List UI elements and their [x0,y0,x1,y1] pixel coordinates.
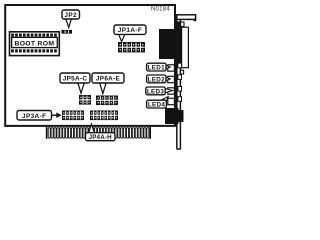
svg-text:N0184: N0184 [151,6,171,12]
JP1A-F callout label [114,25,146,42]
JP2 jumper block [62,30,73,34]
board right edge thick section [174,22,177,127]
bracket (metal L-bracket) [177,15,196,149]
JP4A-H jumper block [90,111,118,121]
svg-text:BOOT ROM: BOOT ROM [15,40,55,47]
svg-text:LED4: LED4 [148,102,165,109]
LED3 body [168,88,175,94]
edge connector JP4 card-edge fingers [47,127,151,139]
screw hole (bottom) [181,70,184,74]
JP1A-F jumper block [118,42,145,52]
board outline PCB [5,5,175,126]
LED1 callout label [147,63,171,71]
svg-text:JP6A-E: JP6A-E [96,76,121,83]
LED4 callout label [147,97,169,109]
svg-text:JP4A-H: JP4A-H [89,134,113,141]
BNC connector (black block, bottom right) [165,108,184,124]
svg-text:JP3A-F: JP3A-F [22,113,46,120]
svg-text:LED1: LED1 [148,65,165,72]
LED1 body [168,65,175,71]
LED3 bracket bump [178,87,182,92]
boot ROM U1 [10,32,60,56]
JP5A-C jumper block [79,95,91,105]
LED4 body [168,98,175,104]
LED2 body [168,76,175,82]
bracket dark section above connector [175,22,180,64]
JP6A-E jumper block [96,96,118,106]
LED4 bracket bump [178,97,182,102]
JP5A-C callout label [60,73,90,93]
svg-text:JP2: JP2 [64,12,77,19]
JP6A-E callout label [92,73,124,94]
JP2 callout label [62,10,80,27]
JP4A-H callout label [86,124,116,141]
LED2 bracket bump [178,75,182,80]
LED1 bracket bump [178,63,182,68]
svg-text:LED3: LED3 [147,88,164,95]
screw hole (top) [181,22,184,26]
svg-text:LED2: LED2 [148,76,165,83]
transceiver module (black block, top right) [159,29,176,59]
DB connector (side view on bracket) [182,27,189,67]
JP3A-F jumper block [62,111,84,121]
LED3 callout label [146,87,173,95]
svg-text:JP1A-F: JP1A-F [118,27,142,34]
JP3A-F callout label [17,111,62,121]
LED2 callout label [147,75,171,83]
svg-text:JP5A-C: JP5A-C [63,76,88,83]
